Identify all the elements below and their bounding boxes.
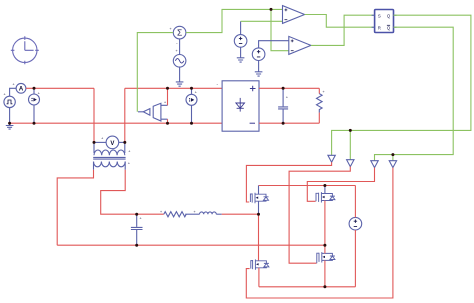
node: negative rail junction bbox=[323, 285, 326, 288]
wire: voltmeter right lead bbox=[119, 141, 125, 143]
svg-text:V: V bbox=[110, 141, 114, 147]
probe P1 bbox=[29, 88, 40, 123]
ground G4 (below V4) bbox=[255, 72, 263, 76]
wire: V4 bottom lead to ground bbox=[258, 61, 260, 72]
flip-flop pin stubs bbox=[372, 15, 397, 27]
wire: V4 top lead to comparator2 plus input bbox=[259, 41, 289, 48]
wire: mosfet M1 drain to rail bbox=[258, 186, 260, 195]
dc source V2 bbox=[349, 217, 362, 230]
flip-flop Qbar overline bbox=[387, 24, 390, 26]
ground G1 bbox=[6, 123, 14, 129]
voltmeter VM1 bbox=[106, 136, 119, 149]
ground G3 (below V3) bbox=[237, 58, 245, 62]
gate driver T4 bbox=[389, 161, 396, 168]
wire: V2 top lead to drain rail bbox=[354, 186, 356, 218]
node: green gate driver 4 junction bbox=[391, 153, 394, 156]
summer U1 bbox=[173, 26, 186, 39]
amplifier E1 output stubs bbox=[161, 105, 168, 119]
gate driver T1 bbox=[328, 155, 335, 162]
load resistor R2 zigzag bbox=[316, 94, 322, 113]
wire: secondary right jog to filter rail bbox=[101, 170, 164, 214]
amplifier E1 input lead bbox=[138, 111, 143, 113]
wire: top rail segment 2 (transformer right riser to rectifier) bbox=[125, 87, 222, 89]
sine glyph bbox=[175, 59, 183, 63]
node: amplifier top junction bbox=[166, 87, 169, 90]
amplifier E1 (controlled source) triangle bbox=[143, 109, 150, 116]
wire: amplifier bottom terminal to bottom rail bbox=[167, 119, 169, 123]
wire: top rail segment 1 (ammeter to transformer left riser) bbox=[26, 87, 94, 89]
sense resistor R1 zigzag bbox=[164, 212, 186, 217]
wire: voltmeter left lead bbox=[94, 141, 106, 143]
ammeter A1 bbox=[10, 83, 26, 96]
flip-flop U4 box bbox=[375, 10, 394, 33]
node: capacitor C2 bottom junction bbox=[282, 122, 285, 125]
mosfet M3 arrow bbox=[256, 263, 259, 265]
wire: mosfet M2 source down to leg2 midpoint bbox=[324, 201, 326, 246]
rectifier BD1 box bbox=[222, 81, 259, 131]
ground G2 (below sine) bbox=[176, 82, 184, 86]
node: probe P1 bottom junction bbox=[33, 122, 36, 125]
capacitor C2 top lead bbox=[282, 88, 284, 106]
comparator U2 bbox=[283, 6, 305, 24]
wire: green summer output up-right to comparators node bbox=[186, 9, 283, 32]
dc source V4 plus minus glyphs bbox=[257, 50, 260, 57]
wire: inductor to bridge leg1 midpoint bbox=[222, 213, 259, 215]
dc source V3 bbox=[234, 35, 247, 48]
SECTION:COMPARATORS bbox=[217, 81, 326, 131]
mosfet M2 bbox=[316, 192, 335, 202]
square-wave glyph bbox=[7, 100, 13, 104]
wire: green branch to gate driver 2 bbox=[349, 130, 351, 159]
wire: green comparator U3 output to flipflop S input bbox=[311, 15, 375, 45]
capacitor C2 bottom lead bbox=[282, 109, 284, 123]
wire: mosfet M4 source to negative rail bbox=[324, 260, 326, 286]
node: voltmeter left junction bbox=[93, 141, 96, 144]
transformer TR1 primary winding bbox=[94, 150, 125, 155]
wire: mosfet M4 drain up to leg2 midpoint bbox=[324, 245, 326, 253]
inductor L1 winding bbox=[200, 212, 217, 214]
wire: bridge negative rail bbox=[259, 286, 356, 288]
node: probe P2 bottom junction bbox=[190, 122, 193, 125]
transformer TR1 primary stubs bbox=[94, 142, 125, 153]
wire: V2 bottom lead to negative rail bbox=[354, 230, 356, 287]
wire: green branch down to comparator2 minus input bbox=[271, 9, 289, 50]
wire: mosfet M1 source to leg1 midpoint bbox=[258, 201, 260, 214]
capacitor C2 plates bbox=[278, 107, 288, 109]
node: capacitor C1 bottom junction bbox=[135, 244, 138, 247]
wire: transformer left riser bbox=[93, 88, 95, 142]
wire: leg1 midpoint down to mosfet M3 drain bbox=[258, 214, 260, 261]
dc source V3 plus minus glyphs bbox=[239, 37, 242, 44]
node: capacitor C2 top junction bbox=[282, 87, 285, 90]
wire: green summer input from amplifier bbox=[137, 33, 173, 112]
rectifier diode glyph bbox=[236, 98, 245, 112]
gate driver T3 bbox=[371, 161, 378, 168]
svg-text:R: R bbox=[378, 25, 381, 30]
wire: green flipflop Qbar output to gate drivers 3-4 bbox=[375, 27, 454, 161]
wire: mosfet M3 source to negative rail bbox=[258, 268, 260, 287]
comparator U3 plus glyph bbox=[291, 40, 294, 43]
SECTION:RECTIFIER bbox=[57, 135, 325, 245]
inductor L1 right lead bbox=[216, 213, 221, 215]
wire: V3 bottom lead to ground bbox=[240, 47, 242, 58]
wire: gate driver T1 to mosfet M1 gate bbox=[246, 162, 331, 202]
wire: secondary left to bridge output rail bbox=[57, 170, 93, 245]
dc source V2 plus minus glyphs bbox=[354, 220, 357, 227]
probe P2 bbox=[186, 88, 197, 123]
SECTION:TOPMID bbox=[246, 6, 471, 298]
node: voltmeter right junction bbox=[123, 141, 126, 144]
dc source V4 bbox=[252, 48, 265, 61]
wire: transformer right riser bbox=[124, 88, 126, 142]
rectifier plus output glyph bbox=[250, 86, 256, 92]
sine source Vsin bbox=[173, 55, 186, 68]
load resistor R2 top lead bbox=[318, 88, 320, 93]
transformer TR1 core lines bbox=[93, 157, 125, 159]
capacitor C1 bottom lead bbox=[136, 230, 138, 245]
node: capacitor C1 top junction bbox=[135, 213, 138, 216]
mosfet M3 bbox=[251, 259, 269, 269]
node: probe P1 top junction bbox=[33, 87, 36, 90]
mosfet M4 arrow bbox=[322, 256, 325, 258]
node: source ground junction bbox=[8, 122, 11, 125]
node: green gate driver 2 junction bbox=[349, 129, 352, 132]
rectifier minus output glyph bbox=[250, 122, 255, 124]
comparator U2 plus glyph bbox=[285, 9, 288, 12]
SECTION:BRIDGE bbox=[8, 8, 394, 288]
mosfet M1 bbox=[250, 193, 268, 203]
node: mosfet M2 drain junction bbox=[323, 184, 326, 187]
gate driver T2 bbox=[347, 160, 354, 167]
load resistor R2 bottom lead bbox=[318, 113, 320, 124]
wire: rectifier plus output to capacitor node bbox=[259, 87, 319, 89]
capacitor C1 top lead bbox=[136, 214, 138, 227]
node: green summer output junction bbox=[270, 8, 273, 11]
amplifier E1 trapezoid bbox=[153, 103, 161, 121]
wire: gate driver T3 to mosfet M2 gate bbox=[307, 168, 374, 202]
node: probe P2 top junction bbox=[190, 87, 193, 90]
square-wave source Vsq bbox=[4, 96, 15, 107]
mosfet M1 arrow bbox=[256, 197, 259, 199]
wire: green V3 to comparator1 minus input bbox=[241, 20, 283, 22]
node: amplifier bottom junction bbox=[166, 122, 169, 125]
probe P1 glyph bbox=[32, 98, 37, 102]
wire: bottom rail (ground to rectifier) bbox=[10, 122, 223, 124]
wire: bridge top drain rail bbox=[259, 185, 356, 187]
wire: green flipflop Q output to gate drivers 1-2 bbox=[332, 15, 471, 155]
wire: mosfet M2 drain to rail bbox=[324, 186, 326, 194]
wire: amplifier top terminal to top rail bbox=[167, 88, 169, 105]
wire: gate driver T4 to mosfet M3 gate bbox=[246, 168, 393, 298]
comparator U3 bbox=[289, 36, 311, 54]
mosfet M4 bbox=[317, 252, 335, 263]
transformer TR1 secondary stubs bbox=[94, 162, 126, 170]
comparator U3 minus glyph bbox=[291, 50, 294, 52]
wire: bridge output rail horizontal bbox=[57, 244, 325, 246]
SECTION:LEFT bbox=[137, 9, 288, 123]
wire: green comparator U2 output to flipflop R input bbox=[305, 15, 375, 28]
transformer TR1 secondary winding bbox=[94, 162, 126, 167]
svg-text:A: A bbox=[19, 86, 24, 92]
SECTION:TRANSFORMER bbox=[250, 186, 361, 287]
svg-text:Σ: Σ bbox=[177, 28, 182, 38]
wire: summer to sine source bbox=[179, 39, 181, 55]
square-wave source bottom lead bbox=[9, 108, 11, 124]
mosfet M2 arrow bbox=[322, 196, 325, 198]
wire: green branch to gate driver 4 bbox=[392, 155, 394, 161]
wire: sine source to ground bbox=[179, 67, 181, 82]
wire: V3 top lead bbox=[240, 21, 242, 34]
clock block bbox=[11, 36, 39, 64]
wire: resistor to inductor connector bbox=[185, 213, 199, 215]
node: leg2 midpoint junction bbox=[323, 244, 326, 247]
capacitor C1 plates bbox=[131, 227, 143, 229]
wire: rectifier minus output to capacitor bottom node bbox=[259, 122, 319, 124]
wire: gate driver T2 to mosfet M4 gate bbox=[289, 167, 350, 264]
probe P2 glyph bbox=[189, 98, 194, 102]
comparator U2 minus glyph bbox=[285, 19, 288, 21]
svg-text:S: S bbox=[378, 13, 381, 18]
node: leg1 midpoint junction bbox=[257, 213, 260, 216]
